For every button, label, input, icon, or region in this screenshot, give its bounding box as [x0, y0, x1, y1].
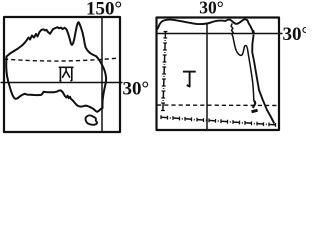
character bing (丙) label: [59, 67, 74, 81]
30S parallel line: [1, 82, 123, 84]
Lake Nasser: [253, 101, 255, 108]
Egypt-Sudan border (dash-dot horizontal, slanted): [161, 115, 276, 127]
left map frame: [4, 17, 120, 132]
svg-text:30°: 30°: [123, 79, 150, 100]
svg-text:30°: 30°: [199, 0, 224, 18]
Red Sea coastline: [252, 35, 274, 124]
Nile river: [231, 23, 254, 100]
Suez junction thickening: [252, 30, 255, 33]
Australia mainland coastline: [6, 22, 106, 112]
character ding (丁) label: [183, 72, 196, 87]
Tasmania island: [86, 115, 98, 124]
svg-text:150°: 150°: [86, 0, 122, 20]
meridian 30E line (right map): [206, 24, 208, 131]
right map frame: [157, 18, 280, 131]
Mediterranean coastline of Egypt: [157, 19, 254, 33]
tropic of cancer dashed line (right map): [157, 104, 279, 107]
tropic of capricorn dashed line (left map): [4, 58, 119, 61]
svg-text:30°: 30°: [283, 24, 307, 45]
Egypt-Libya border (dash-dot vertical): [161, 32, 167, 111]
meridian 150E line: [101, 17, 103, 132]
30N parallel line (right map): [157, 33, 283, 35]
